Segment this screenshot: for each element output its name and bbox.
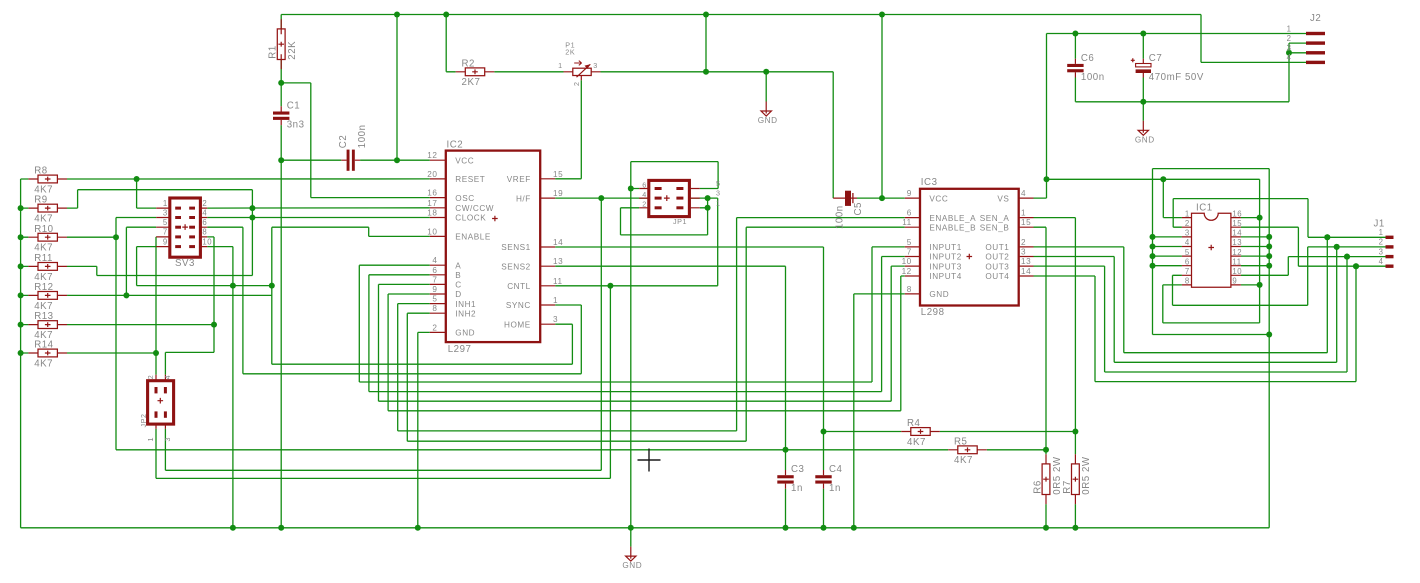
svg-text:15: 15 bbox=[1232, 219, 1242, 228]
svg-text:20: 20 bbox=[427, 170, 437, 179]
svg-text:INPUT4: INPUT4 bbox=[929, 272, 961, 281]
svg-text:A: A bbox=[455, 261, 461, 270]
svg-text:INH2: INH2 bbox=[455, 309, 476, 318]
svg-text:INPUT3: INPUT3 bbox=[929, 262, 961, 271]
svg-text:VS: VS bbox=[997, 194, 1009, 203]
svg-text:4: 4 bbox=[1379, 257, 1384, 266]
svg-text:13: 13 bbox=[1021, 257, 1031, 266]
svg-text:9: 9 bbox=[1232, 277, 1237, 286]
svg-text:SENS2: SENS2 bbox=[501, 262, 531, 271]
svg-text:19: 19 bbox=[553, 189, 563, 198]
svg-text:22K: 22K bbox=[287, 41, 298, 60]
svg-text:5: 5 bbox=[1185, 248, 1190, 257]
svg-text:SV3: SV3 bbox=[175, 258, 195, 269]
svg-text:6: 6 bbox=[1185, 257, 1190, 266]
svg-text:GND: GND bbox=[1135, 135, 1155, 144]
svg-text:4: 4 bbox=[642, 190, 647, 199]
svg-text:L297: L297 bbox=[448, 344, 472, 355]
svg-text:2: 2 bbox=[1379, 238, 1384, 247]
svg-text:IC1: IC1 bbox=[1196, 202, 1213, 213]
svg-text:13: 13 bbox=[1232, 238, 1242, 247]
svg-text:5: 5 bbox=[432, 295, 437, 304]
svg-text:IC3: IC3 bbox=[921, 177, 938, 188]
svg-text:1: 1 bbox=[1379, 228, 1384, 237]
svg-text:R8: R8 bbox=[34, 166, 47, 177]
svg-text:15: 15 bbox=[553, 170, 563, 179]
svg-text:1: 1 bbox=[1185, 209, 1190, 218]
svg-text:R1: R1 bbox=[268, 45, 279, 58]
svg-text:6: 6 bbox=[432, 266, 437, 275]
svg-text:4K7: 4K7 bbox=[34, 301, 53, 312]
svg-text:10: 10 bbox=[1232, 267, 1242, 276]
svg-text:H/F: H/F bbox=[516, 194, 531, 203]
svg-text:CW/CCW: CW/CCW bbox=[455, 204, 494, 213]
svg-text:3: 3 bbox=[1379, 247, 1384, 256]
svg-text:2: 2 bbox=[1021, 238, 1026, 247]
svg-text:C1: C1 bbox=[287, 101, 300, 112]
svg-text:1: 1 bbox=[146, 437, 155, 442]
svg-text:6: 6 bbox=[202, 218, 207, 227]
svg-text:4: 4 bbox=[1185, 238, 1190, 247]
svg-text:GND: GND bbox=[929, 290, 949, 299]
svg-text:6: 6 bbox=[642, 180, 647, 189]
svg-text:GND: GND bbox=[622, 561, 642, 570]
svg-text:R4: R4 bbox=[907, 418, 921, 429]
svg-text:L298: L298 bbox=[921, 307, 945, 318]
svg-text:3: 3 bbox=[1021, 248, 1026, 257]
svg-text:D: D bbox=[455, 290, 461, 299]
svg-text:4: 4 bbox=[202, 208, 207, 217]
svg-text:0R5 2W: 0R5 2W bbox=[1081, 456, 1092, 495]
svg-text:2: 2 bbox=[202, 199, 207, 208]
svg-text:J2: J2 bbox=[1310, 13, 1321, 24]
svg-text:3: 3 bbox=[593, 61, 598, 70]
svg-text:4: 4 bbox=[432, 256, 437, 265]
svg-text:3: 3 bbox=[163, 437, 172, 442]
svg-text:4: 4 bbox=[163, 375, 172, 380]
svg-text:7: 7 bbox=[432, 275, 437, 284]
svg-text:C6: C6 bbox=[1081, 53, 1094, 64]
svg-text:C2: C2 bbox=[338, 135, 349, 148]
svg-text:R14: R14 bbox=[34, 340, 53, 351]
svg-text:11: 11 bbox=[902, 218, 912, 227]
svg-text:4K7: 4K7 bbox=[907, 437, 926, 448]
svg-text:2K: 2K bbox=[565, 48, 575, 57]
svg-text:2: 2 bbox=[572, 81, 581, 86]
svg-text:13: 13 bbox=[553, 257, 563, 266]
svg-text:R9: R9 bbox=[34, 195, 47, 206]
svg-text:OSC: OSC bbox=[455, 194, 474, 203]
svg-text:4K7: 4K7 bbox=[954, 455, 973, 466]
svg-text:C5: C5 bbox=[853, 202, 864, 215]
svg-text:14: 14 bbox=[553, 238, 563, 247]
svg-text:2K7: 2K7 bbox=[462, 77, 481, 88]
svg-text:100n: 100n bbox=[1081, 72, 1105, 83]
svg-text:12: 12 bbox=[902, 267, 912, 276]
svg-text:SEN_A: SEN_A bbox=[980, 214, 1010, 223]
svg-text:INPUT2: INPUT2 bbox=[929, 253, 961, 262]
svg-text:ENABLE_A: ENABLE_A bbox=[929, 214, 976, 223]
svg-text:9: 9 bbox=[163, 237, 168, 246]
svg-text:1n: 1n bbox=[829, 483, 841, 494]
svg-text:18: 18 bbox=[427, 209, 437, 218]
svg-text:7: 7 bbox=[163, 228, 168, 237]
svg-text:5: 5 bbox=[163, 218, 168, 227]
svg-text:C7: C7 bbox=[1149, 53, 1162, 64]
svg-text:8: 8 bbox=[907, 285, 912, 294]
svg-text:11: 11 bbox=[1232, 257, 1241, 266]
svg-text:8: 8 bbox=[1185, 277, 1190, 286]
svg-text:100n: 100n bbox=[357, 124, 368, 148]
svg-text:3n3: 3n3 bbox=[287, 120, 305, 131]
svg-text:3: 3 bbox=[163, 208, 168, 217]
svg-text:1: 1 bbox=[1287, 24, 1292, 33]
svg-text:10: 10 bbox=[427, 227, 437, 236]
svg-text:R2: R2 bbox=[462, 58, 475, 69]
svg-text:INH1: INH1 bbox=[455, 300, 476, 309]
svg-text:1: 1 bbox=[716, 198, 721, 207]
svg-text:2: 2 bbox=[1185, 219, 1190, 228]
svg-text:1n: 1n bbox=[791, 483, 803, 494]
svg-text:R13: R13 bbox=[34, 311, 53, 322]
svg-text:ENABLE_B: ENABLE_B bbox=[929, 223, 976, 232]
svg-text:1: 1 bbox=[558, 61, 563, 70]
svg-text:4K7: 4K7 bbox=[34, 243, 53, 254]
svg-text:INPUT1: INPUT1 bbox=[929, 243, 961, 252]
svg-text:CLOCK: CLOCK bbox=[455, 214, 486, 223]
svg-text:VCC: VCC bbox=[455, 156, 474, 165]
svg-text:14: 14 bbox=[1021, 267, 1031, 276]
svg-text:12: 12 bbox=[1232, 248, 1242, 257]
svg-text:100n: 100n bbox=[835, 205, 846, 229]
svg-text:SYNC: SYNC bbox=[506, 301, 531, 310]
svg-text:SEN_B: SEN_B bbox=[980, 223, 1010, 232]
svg-text:5: 5 bbox=[716, 179, 721, 188]
svg-text:14: 14 bbox=[1232, 229, 1242, 238]
svg-text:7: 7 bbox=[1185, 267, 1190, 276]
svg-text:CNTL: CNTL bbox=[507, 282, 531, 291]
svg-text:R7: R7 bbox=[1062, 480, 1073, 493]
svg-text:3: 3 bbox=[553, 315, 558, 324]
svg-text:GND: GND bbox=[455, 329, 475, 338]
svg-text:3: 3 bbox=[716, 189, 721, 198]
svg-text:C4: C4 bbox=[829, 464, 843, 475]
svg-text:17: 17 bbox=[427, 199, 437, 208]
svg-text:11: 11 bbox=[553, 277, 563, 286]
svg-text:R10: R10 bbox=[34, 224, 53, 235]
svg-text:470mF 50V: 470mF 50V bbox=[1149, 72, 1204, 83]
svg-text:16: 16 bbox=[427, 189, 437, 198]
svg-text:2: 2 bbox=[146, 375, 155, 380]
svg-text:10: 10 bbox=[202, 237, 212, 246]
svg-text:10: 10 bbox=[902, 257, 912, 266]
svg-text:JP2: JP2 bbox=[139, 413, 148, 427]
svg-text:9: 9 bbox=[432, 285, 437, 294]
svg-text:SENS1: SENS1 bbox=[501, 243, 531, 252]
svg-text:GND: GND bbox=[758, 116, 778, 125]
svg-text:OUT2: OUT2 bbox=[985, 253, 1009, 262]
svg-text:ENABLE: ENABLE bbox=[455, 233, 491, 242]
svg-text:JP1: JP1 bbox=[673, 217, 687, 226]
svg-text:OUT4: OUT4 bbox=[985, 272, 1009, 281]
svg-text:3: 3 bbox=[1287, 44, 1292, 53]
svg-text:1: 1 bbox=[553, 296, 558, 305]
svg-text:C3: C3 bbox=[791, 464, 804, 475]
svg-text:4K7: 4K7 bbox=[34, 358, 53, 369]
svg-text:RESET: RESET bbox=[455, 175, 485, 184]
svg-text:4: 4 bbox=[1021, 189, 1026, 198]
svg-text:R5: R5 bbox=[954, 436, 967, 447]
svg-text:8: 8 bbox=[432, 304, 437, 313]
svg-text:VCC: VCC bbox=[929, 194, 948, 203]
svg-text:9: 9 bbox=[907, 189, 912, 198]
svg-text:5: 5 bbox=[907, 238, 912, 247]
svg-text:IC2: IC2 bbox=[447, 140, 464, 151]
svg-text:2: 2 bbox=[642, 200, 647, 209]
svg-text:3: 3 bbox=[1185, 229, 1190, 238]
svg-text:VREF: VREF bbox=[507, 175, 531, 184]
svg-text:R11: R11 bbox=[34, 253, 53, 264]
svg-text:2: 2 bbox=[1287, 34, 1292, 43]
svg-text:B: B bbox=[455, 271, 461, 280]
svg-text:15: 15 bbox=[1021, 218, 1031, 227]
svg-text:1: 1 bbox=[163, 199, 168, 208]
svg-text:8: 8 bbox=[202, 228, 207, 237]
svg-text:12: 12 bbox=[427, 151, 437, 160]
svg-text:OUT3: OUT3 bbox=[985, 262, 1009, 271]
svg-text:6: 6 bbox=[907, 209, 912, 218]
svg-text:OUT1: OUT1 bbox=[985, 243, 1009, 252]
svg-text:C: C bbox=[455, 281, 461, 290]
svg-text:R6: R6 bbox=[1032, 480, 1043, 493]
svg-text:1: 1 bbox=[1021, 209, 1026, 218]
svg-text:16: 16 bbox=[1232, 209, 1242, 218]
svg-text:R12: R12 bbox=[34, 282, 53, 293]
svg-text:4: 4 bbox=[1287, 53, 1292, 62]
svg-text:2: 2 bbox=[432, 323, 437, 332]
svg-text:7: 7 bbox=[907, 248, 912, 257]
svg-text:HOME: HOME bbox=[504, 320, 531, 329]
